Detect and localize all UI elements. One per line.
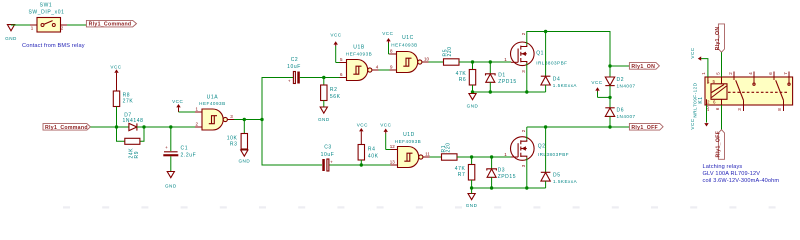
svg-text:HEF4093B: HEF4093B xyxy=(199,101,225,106)
svg-text:VCC: VCC xyxy=(172,99,183,104)
power VCC (U1A pin1) xyxy=(172,99,183,112)
svg-text:GND: GND xyxy=(318,117,330,122)
svg-text:Rly1_OFF: Rly1_OFF xyxy=(631,125,658,131)
svg-text:SW_DIP_x01: SW_DIP_x01 xyxy=(28,10,64,16)
svg-text:Q1: Q1 xyxy=(536,51,544,57)
svg-text:Latching relays: Latching relays xyxy=(703,164,743,170)
svg-text:D5: D5 xyxy=(553,172,561,178)
svg-text:GND: GND xyxy=(165,184,177,189)
svg-text:+: + xyxy=(288,79,291,84)
svg-text:10: 10 xyxy=(424,57,430,62)
svg-text:10uF: 10uF xyxy=(321,152,335,158)
diode D2 1N4007 xyxy=(605,66,635,97)
node D junction (R3 tap) xyxy=(243,118,246,121)
svg-text:+: + xyxy=(330,159,333,164)
wire node Q to U1D pin13 xyxy=(361,164,390,166)
label Rly1_OFF xyxy=(629,123,663,131)
label Rly1_ON (vertical, relay) xyxy=(715,24,724,52)
node P junction (D5 top) xyxy=(544,125,547,128)
op-amp U1A HEF4093B nand gate xyxy=(195,94,234,130)
svg-text:GND: GND xyxy=(467,104,479,109)
svg-text:VCC: VCC xyxy=(690,118,695,129)
svg-text:Rly1_ON: Rly1_ON xyxy=(715,27,721,51)
diode D4 1.5KExxA xyxy=(541,32,578,93)
wire branch up to C2 row xyxy=(262,78,293,120)
node K junction (Q1 source) xyxy=(525,90,528,93)
svg-text:HEF4093B: HEF4093B xyxy=(395,139,421,144)
wire coil top pin from label xyxy=(721,52,723,77)
svg-text:Q2: Q2 xyxy=(538,144,546,150)
svg-text:Rly1_Command: Rly1_Command xyxy=(45,125,88,131)
svg-text:R7: R7 xyxy=(458,172,466,178)
ground (below R3) xyxy=(238,150,250,163)
svg-text:D4: D4 xyxy=(553,76,561,82)
svg-text:VCC: VCC xyxy=(591,80,602,85)
node R junction (R7 tap) xyxy=(470,155,473,158)
node H junction (D1 tap) xyxy=(489,60,492,63)
svg-text:40K: 40K xyxy=(368,154,379,160)
svg-text:Rly1_Command: Rly1_Command xyxy=(89,22,132,28)
power VCC (above R8) xyxy=(110,64,121,91)
svg-text:D6: D6 xyxy=(617,107,625,113)
resistor R6 47K xyxy=(456,62,476,92)
node S junction (D3 tap) xyxy=(490,155,493,158)
resistor R7 47K xyxy=(455,157,475,188)
svg-text:U1A: U1A xyxy=(207,94,219,100)
wire SW1 to label xyxy=(67,24,86,26)
wire node B to node C xyxy=(144,126,171,128)
svg-text:U1B: U1B xyxy=(353,45,365,51)
svg-text:K1: K1 xyxy=(698,96,704,103)
label Rly1_OFF (vertical, relay) xyxy=(716,130,725,160)
svg-text:C3: C3 xyxy=(324,145,332,151)
svg-text:VCC: VCC xyxy=(382,31,393,36)
node C junction xyxy=(169,125,172,128)
faint bottom artifacts xyxy=(63,206,776,208)
node A junction xyxy=(115,125,118,128)
svg-text:R3: R3 xyxy=(230,142,238,148)
capacitor C3 10uF xyxy=(321,145,362,171)
node Q junction (C3/R4) xyxy=(360,163,363,166)
svg-text:ZPD15: ZPD15 xyxy=(498,79,517,85)
power VCC (U1B pin5) xyxy=(330,33,341,63)
svg-text:1N4007: 1N4007 xyxy=(617,84,636,89)
svg-text:56K: 56K xyxy=(330,94,341,100)
diode D7 1N4148 xyxy=(117,113,145,131)
svg-text:Rly1_OFF: Rly1_OFF xyxy=(716,131,722,158)
wire U1B out to U1C pin9 xyxy=(379,69,390,71)
svg-text:Rly1_ON: Rly1_ON xyxy=(631,64,655,70)
svg-text:12: 12 xyxy=(390,144,396,149)
svg-text:R2: R2 xyxy=(330,87,338,93)
wire label to node A xyxy=(90,126,116,128)
node V junction (Q2 source) xyxy=(525,186,528,189)
wire VCC elbow to U1C pin8 xyxy=(389,53,390,55)
node N junction (VCC between D2 D6) xyxy=(608,96,611,99)
svg-text:27K: 27K xyxy=(123,99,134,105)
svg-text:NRL709F-12D: NRL709F-12D xyxy=(693,82,698,117)
node F junction (C2/R2) xyxy=(322,76,325,79)
svg-text:2.2uF: 2.2uF xyxy=(181,153,197,159)
svg-text:+: + xyxy=(165,145,168,150)
node E junction (branch split) xyxy=(260,118,263,121)
wire Q2 drain to OFF rail xyxy=(526,127,528,140)
op-amp U1C HEF4093B nand gate xyxy=(390,35,430,72)
power VCC (D2/D6 node) xyxy=(591,80,610,97)
wire relay coil to OFF label xyxy=(721,105,723,130)
svg-text:IRL3803PBF: IRL3803PBF xyxy=(538,152,569,157)
wire node G to node H xyxy=(473,61,491,63)
note: Latching relays xyxy=(703,164,780,184)
svg-text:Contact from BMS relay: Contact from BMS relay xyxy=(22,43,85,49)
transistor Q2 IRL3803PBF xyxy=(504,129,569,167)
svg-text:D2: D2 xyxy=(617,77,625,83)
label Rly1_Command (top) xyxy=(86,20,136,27)
svg-text:R4: R4 xyxy=(368,147,376,153)
wire GND to SW1 pin1 xyxy=(11,24,30,26)
resistor R4 40K xyxy=(358,145,379,166)
power VCC (relay pin 1, pointing left) xyxy=(690,47,708,77)
node B junction xyxy=(142,125,145,128)
diode D5 1.5KExxA xyxy=(541,127,578,188)
wire VCC elbow to U1B pin5 xyxy=(336,62,340,64)
op-amp U1B HEF4093B nand gate xyxy=(340,45,379,81)
svg-text:D1: D1 xyxy=(498,73,506,79)
wire OFF rail to Q2 drain xyxy=(527,126,610,128)
label Rly1_ON xyxy=(629,63,659,71)
node U junction (D3 bottom) xyxy=(490,186,493,189)
svg-text:SW1: SW1 xyxy=(40,3,53,9)
svg-text:R9: R9 xyxy=(134,151,140,159)
diode D3 ZPD15 zener xyxy=(487,157,516,188)
svg-text:D3: D3 xyxy=(498,168,506,174)
resistor R1 220 xyxy=(441,142,472,160)
wire node S to Q2 gate xyxy=(492,156,511,158)
node T junction (GND tap bottom) xyxy=(470,186,473,189)
svg-text:VCC: VCC xyxy=(380,122,391,127)
wire branch down to C3 row xyxy=(262,120,322,166)
relay K1 NRL709F-12D xyxy=(693,72,793,118)
svg-text:VCC: VCC xyxy=(357,122,368,127)
svg-text:GND: GND xyxy=(5,36,17,41)
svg-text:1N4007: 1N4007 xyxy=(617,114,636,119)
svg-text:220: 220 xyxy=(446,142,452,152)
wire U1C out to R5 xyxy=(429,61,444,63)
capacitor C2 10uF xyxy=(287,57,324,83)
wire node C to U1A pin2 xyxy=(171,126,195,128)
label Rly1_Command (left middle) xyxy=(43,124,90,131)
ground (below R2) xyxy=(318,107,330,122)
power VCC (above R4) xyxy=(357,122,368,144)
ground (bottom source rail) xyxy=(466,188,478,208)
svg-text:IRL3803PBF: IRL3803PBF xyxy=(536,60,567,65)
svg-text:coil 3.6W-12V-300mA-40ohm: coil 3.6W-12V-300mA-40ohm xyxy=(703,178,780,184)
svg-text:R6: R6 xyxy=(459,77,467,83)
capacitor C1 2.2uF xyxy=(163,127,196,172)
svg-text:220: 220 xyxy=(447,46,453,56)
wire Q1 source to source rail xyxy=(526,63,528,92)
svg-text:HEF4093B: HEF4093B xyxy=(346,52,372,57)
node J junction (D1 bottom) xyxy=(489,90,492,93)
wire R8 to node A xyxy=(116,107,118,128)
node L junction (D4 top) xyxy=(544,30,547,33)
wire Q1 drain to top rail xyxy=(527,32,610,67)
svg-text:ZPD15: ZPD15 xyxy=(498,174,517,180)
wire OFF node to label xyxy=(610,126,629,128)
svg-text:VCC: VCC xyxy=(110,64,121,69)
svg-text:GND: GND xyxy=(238,158,250,163)
wire U1A out to branch xyxy=(234,119,262,121)
wire VCC elbow to U1D pin12 xyxy=(386,149,391,151)
power VCC (U1C pin8) xyxy=(382,31,393,54)
switch SW1 SW_DIP_x01 xyxy=(28,3,67,32)
node I junction (GND tap) xyxy=(471,90,474,93)
power VCC (relay coil pin, pointing down) xyxy=(690,105,709,130)
resistor R5 220 xyxy=(442,46,472,65)
svg-text:VCC: VCC xyxy=(690,47,695,58)
svg-text:C1: C1 xyxy=(181,146,189,152)
wire source rail (top) xyxy=(473,91,546,93)
power VCC (U1D pin12) xyxy=(380,122,391,149)
ground GND (left of SW1) xyxy=(5,25,17,42)
node O junction (OFF node) xyxy=(608,125,611,128)
svg-text:HEF4093B: HEF4093B xyxy=(391,43,417,48)
diode D6 1N4007 xyxy=(605,97,635,127)
svg-text:GND: GND xyxy=(466,203,478,208)
wire U1D out to R1 xyxy=(430,156,442,158)
node M junction (ON node) xyxy=(608,64,611,67)
wire node H to Q1 gate xyxy=(490,61,511,63)
svg-text:13: 13 xyxy=(390,160,396,165)
transistor Q1 IRL3803PBF xyxy=(504,32,567,73)
wire node R to node S xyxy=(472,156,492,158)
svg-text:11: 11 xyxy=(425,152,430,157)
svg-text:1.5KExxA: 1.5KExxA xyxy=(553,179,578,184)
wire ON node to label xyxy=(610,65,629,67)
diode D1 ZPD15 zener xyxy=(486,62,517,92)
svg-text:10uF: 10uF xyxy=(287,64,301,70)
wire VCC to U1A pin1 xyxy=(179,111,196,113)
svg-text:U1D: U1D xyxy=(403,132,415,138)
svg-text:U1C: U1C xyxy=(402,35,414,41)
wire node F to U1B pin6 xyxy=(324,77,340,79)
op-amp U1D HEF4093B nand gate xyxy=(390,132,431,167)
resistor R2 56K xyxy=(321,78,341,108)
ground (below C1) xyxy=(165,172,177,189)
wire source rail (bottom) xyxy=(472,187,546,189)
resistor R8 27K xyxy=(113,91,133,107)
node G junction (R6 tap) xyxy=(471,60,474,63)
svg-text:C2: C2 xyxy=(291,57,299,63)
svg-text:GLV 100A RL709-12V: GLV 100A RL709-12V xyxy=(703,171,761,177)
ground (top source rail) xyxy=(467,94,479,109)
resistor R3 10K xyxy=(227,120,248,151)
wire Q2 source to bottom rail xyxy=(526,158,528,188)
svg-text:1.5KExxA: 1.5KExxA xyxy=(553,83,578,88)
resistor R9 24K (parallel with D7) xyxy=(117,127,145,159)
svg-text:10: 10 xyxy=(705,106,710,112)
svg-text:1N4148: 1N4148 xyxy=(122,118,143,124)
svg-text:VCC: VCC xyxy=(330,33,341,38)
